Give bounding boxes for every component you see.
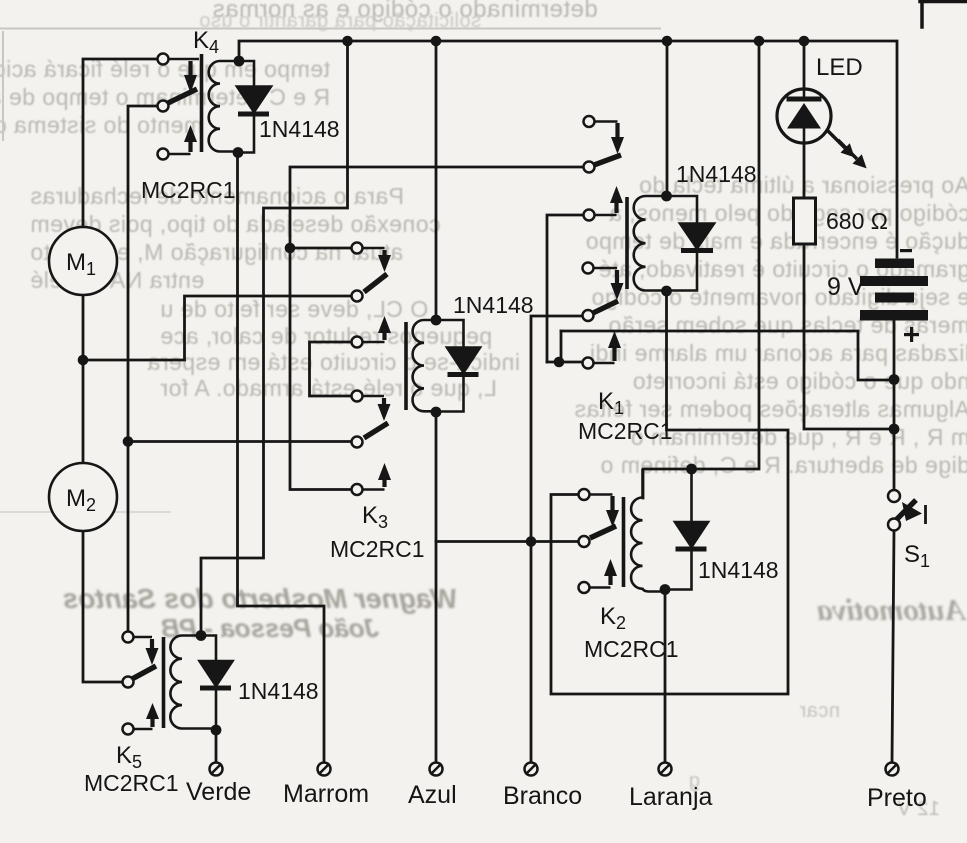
svg-text:1N4148: 1N4148 xyxy=(238,678,319,704)
svg-text:K2: K2 xyxy=(600,603,626,633)
wire bus drop to K3 coil top (Azul branch upper) xyxy=(435,41,438,318)
diode D3 1N4148 (K3) xyxy=(436,320,480,412)
wire K2 coil bottom to Laranja terminal xyxy=(664,591,667,763)
wire bus drop to K1 coil top xyxy=(666,41,669,194)
relay K4 coil xyxy=(202,54,240,152)
svg-text:LED: LED xyxy=(816,54,863,81)
svg-text:1N4148: 1N4148 xyxy=(259,116,340,142)
terminal Preto xyxy=(886,763,899,776)
relay K2 contact set xyxy=(579,489,620,593)
wire M1 junction to contact A common xyxy=(83,296,352,360)
wire K3 coil bottom down to Azul terminal xyxy=(435,414,438,763)
svg-text:Branco: Branco xyxy=(503,782,582,810)
page corner mark top right xyxy=(920,0,967,27)
page rule top xyxy=(0,28,660,30)
svg-text:K1: K1 xyxy=(598,388,624,418)
terminal Verde xyxy=(210,763,223,776)
wire K4 NC to motor M1 xyxy=(83,59,158,227)
svg-text:1N4148: 1N4148 xyxy=(698,557,779,583)
relay K3 contact set xyxy=(352,391,392,496)
diode D5 1N4148 (K5) xyxy=(200,636,233,731)
wire M1 bottom to M2 top xyxy=(82,295,85,463)
terminal Azul xyxy=(430,763,443,776)
terminal Marrom xyxy=(318,763,331,776)
relay K1 upper contact set xyxy=(584,116,625,221)
bleed-through text layer (decorative scan artifacts) xyxy=(0,0,967,1)
wire junction branch to K3 common xyxy=(128,440,352,443)
motor M1 xyxy=(49,227,117,295)
svg-text:Marrom: Marrom xyxy=(283,780,369,808)
wire LED feed from bus xyxy=(803,41,806,90)
switch S1 xyxy=(888,490,926,531)
svg-text:1N4148: 1N4148 xyxy=(453,292,534,318)
wire K4 coil bottom to Marrom terminal xyxy=(238,154,325,763)
wire node Branco junction to K2 common xyxy=(436,540,579,543)
wire top supply bus from K4 coil top to battery minus xyxy=(239,41,897,257)
wire NO contacts rail to battery plus xyxy=(561,331,894,380)
resistor R1 680 ohm xyxy=(794,198,816,244)
svg-text:Laranja: Laranja xyxy=(629,783,712,811)
wire node stub K1 NO lower xyxy=(547,331,583,362)
relay K5 contact set xyxy=(123,632,160,735)
motor M2 xyxy=(49,463,117,531)
wire S1 to Preto terminal xyxy=(892,531,894,763)
svg-text:K4: K4 xyxy=(193,27,219,57)
wire K1 common to contact chain riser xyxy=(290,167,583,490)
svg-text:680 Ω: 680 Ω xyxy=(826,208,888,234)
contact set A (upper chain contacts) xyxy=(352,243,392,348)
svg-text:Verde: Verde xyxy=(186,778,251,806)
wire K2 NC loop to K1 coil bottom xyxy=(551,293,788,694)
svg-text:1N4148: 1N4148 xyxy=(676,161,757,187)
svg-text:MC2RC1: MC2RC1 xyxy=(578,418,673,444)
diode D1 1N4148 (K1) xyxy=(667,196,715,291)
wire LED cathode to resistor xyxy=(803,142,806,198)
relay K2 coil xyxy=(624,469,666,592)
wire bus drop to chain jog feeding K5 coil xyxy=(201,41,348,633)
relay K1 coil xyxy=(627,196,667,291)
svg-text:Preto: Preto xyxy=(867,784,927,812)
diode D2 1N4148 (K2) xyxy=(665,469,708,590)
battery B1 9V xyxy=(860,249,928,342)
wire K4 common down to K5 NC with K3 common branch xyxy=(128,106,158,632)
wire battery plus down through S1 node xyxy=(893,319,896,490)
relay K3 coil xyxy=(406,320,436,411)
wire K5 coil bottom to Verde terminal xyxy=(215,730,218,763)
wire M2 bottom to K5 common xyxy=(83,531,123,682)
wire K1 upper NO to lower stub xyxy=(547,215,594,362)
relay K5 coil xyxy=(164,636,217,729)
svg-text:S1: S1 xyxy=(904,541,930,571)
svg-text:MC2RC1: MC2RC1 xyxy=(84,770,179,796)
svg-text:K5: K5 xyxy=(116,742,142,772)
diode D4 1N4148 (K4) xyxy=(237,61,271,153)
LED xyxy=(777,89,867,168)
svg-text:K3: K3 xyxy=(362,502,388,532)
wire bus drop to K2 coil top via right riser xyxy=(643,41,759,498)
wire contact A NO to K3 NC link xyxy=(310,342,353,396)
page rule left middle xyxy=(0,511,170,513)
svg-text:MC2RC1: MC2RC1 xyxy=(330,536,425,562)
svg-text:MC2RC1: MC2RC1 xyxy=(584,636,679,662)
wire contact A NC lead to riser xyxy=(290,247,352,250)
relay K1 lower contact set xyxy=(583,263,624,369)
terminal Laranja xyxy=(659,763,672,776)
wire K1 lower common to Branco terminal xyxy=(531,316,583,763)
page rule left edge xyxy=(2,32,4,140)
wire resistor bottom to battery plus node xyxy=(804,244,894,429)
terminal Branco xyxy=(525,763,538,776)
svg-text:MC2RC1: MC2RC1 xyxy=(141,177,236,203)
svg-text:Azul: Azul xyxy=(408,781,457,809)
relay K4 contacts xyxy=(158,54,200,160)
svg-text:9 V: 9 V xyxy=(827,273,865,301)
